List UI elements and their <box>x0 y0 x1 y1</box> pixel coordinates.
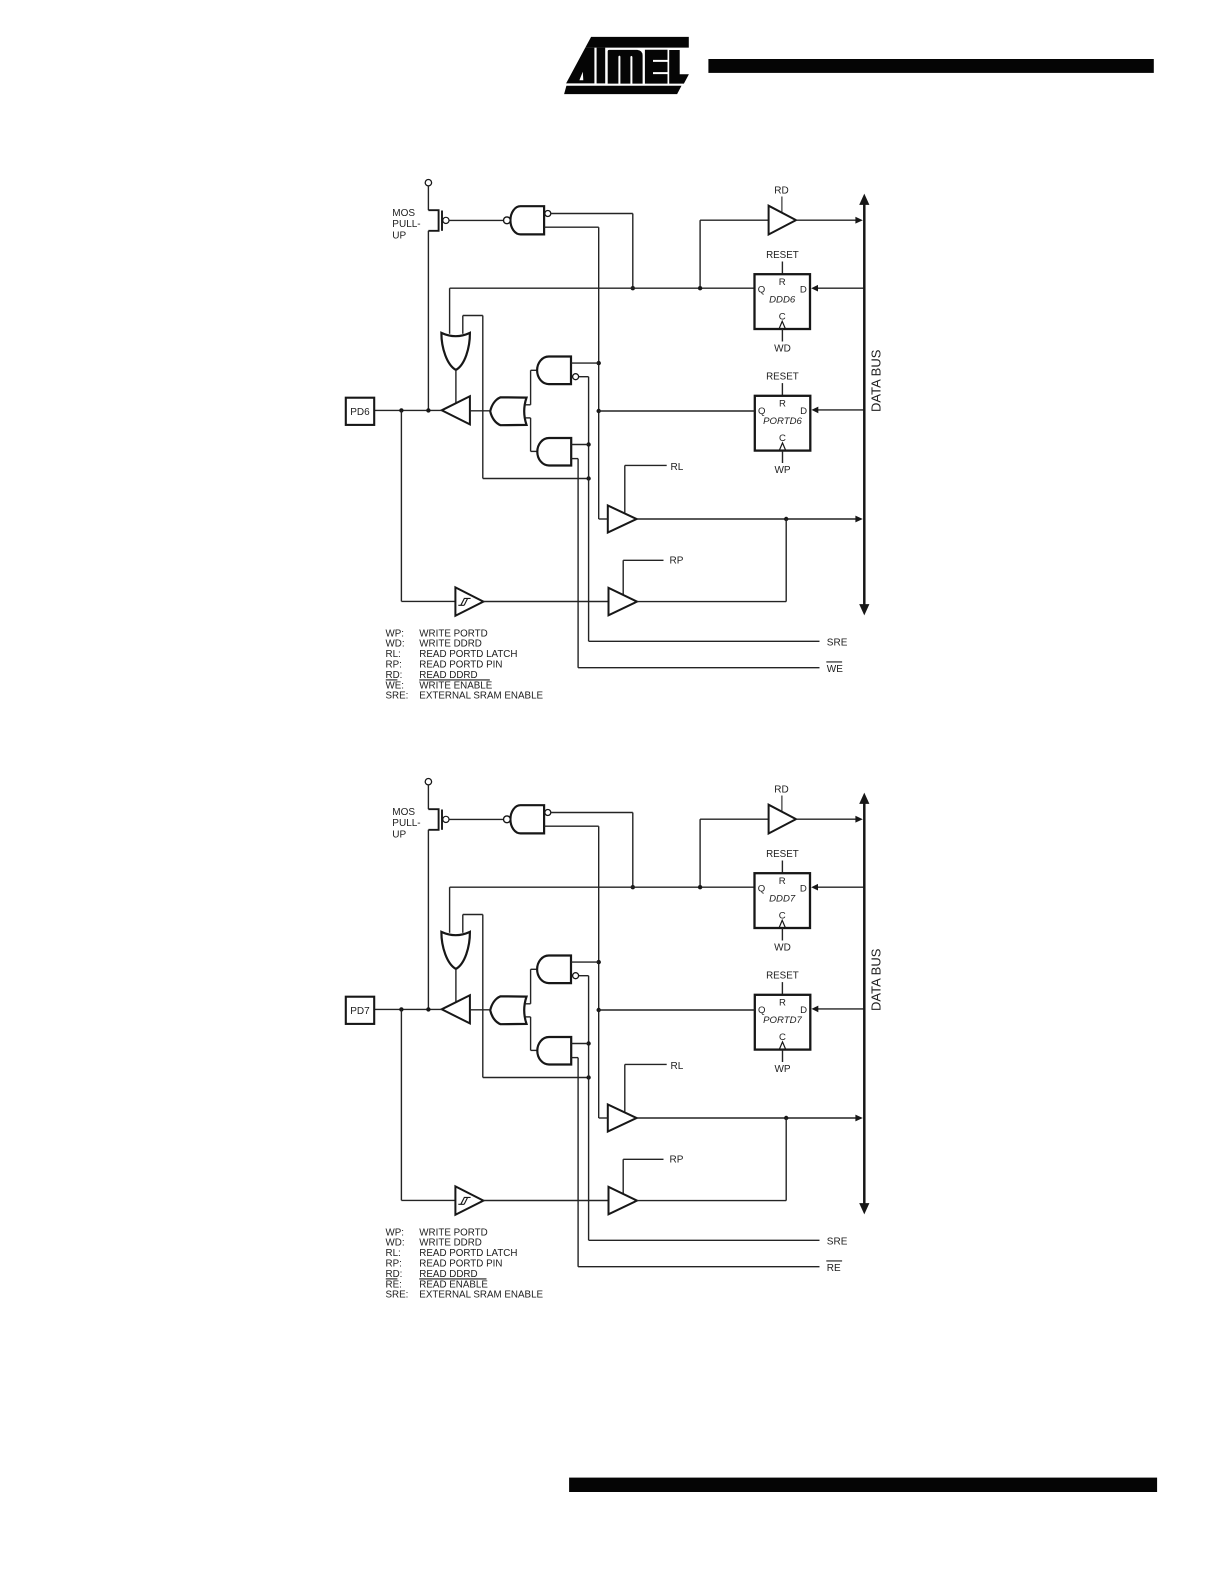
svg-text:UP: UP <box>392 230 406 241</box>
svg-text:R: R <box>779 876 786 887</box>
nand-gate U1 pull-up control (left-facing) <box>510 206 544 234</box>
wire DDR Q line <box>450 287 755 289</box>
wire DDR Q line <box>450 886 755 888</box>
wire WP clock stub <box>782 451 784 463</box>
svg-text:READ DDRD: READ DDRD <box>419 1269 477 1280</box>
wire MOS drain down to pin line <box>427 830 429 1010</box>
junction RL/RP outputs <box>784 517 788 521</box>
overline for active-low WE: row <box>386 679 398 681</box>
svg-text:RP: RP <box>670 1155 684 1166</box>
svg-text:DATA BUS: DATA BUS <box>868 948 883 1011</box>
wire U3 upper input stub <box>525 1003 530 1005</box>
svg-text:RESET: RESET <box>766 849 799 860</box>
wire MOS gate to pull-up NAND output <box>449 219 504 221</box>
wire RL buffer output to data bus <box>637 518 861 520</box>
wire SRE line <box>589 1239 820 1241</box>
svg-text:PORTD6: PORTD6 <box>763 416 802 427</box>
junction RD tap <box>698 885 702 889</box>
wire U3 upper input stub <box>525 404 530 406</box>
nand-gate U1 inverted input bubble <box>545 211 551 217</box>
buffer RP (read pin) <box>609 1187 638 1214</box>
wire U1 lower input to PORT Q net <box>544 226 599 228</box>
wire U1 lower input to PORT Q net <box>544 825 599 827</box>
overline for active-low RE: row <box>386 1278 398 1280</box>
svg-text:WD:: WD: <box>386 1238 405 1249</box>
svg-text:PD6: PD6 <box>350 407 370 418</box>
wire OR output to tristate enable <box>455 370 457 403</box>
svg-text:READ DDRD: READ DDRD <box>419 670 477 681</box>
svg-text:WD: WD <box>774 344 791 355</box>
and-gate U5 (left-facing) <box>531 1049 538 1051</box>
svg-text:Q: Q <box>758 883 765 894</box>
wire SRE net to enable OR input <box>462 316 464 334</box>
svg-text:UP: UP <box>392 829 406 840</box>
transistor MOS pull-up body <box>428 210 438 231</box>
wire RP label line <box>623 1158 663 1160</box>
svg-text:RESET: RESET <box>766 971 799 982</box>
junction SRE / U5 input <box>586 442 590 446</box>
svg-text:WRITE DDRD: WRITE DDRD <box>419 1238 482 1249</box>
svg-text:Q: Q <box>758 284 765 295</box>
wire pin to schmitt trigger <box>400 1009 402 1200</box>
junction RD tap <box>698 286 702 290</box>
logo letter A <box>566 48 594 84</box>
wire RL buffer output to data bus <box>637 1117 861 1119</box>
svg-text:RP:: RP: <box>386 660 402 671</box>
junction pin/pull-up tap <box>426 1007 430 1011</box>
svg-text:WRITE ENABLE: WRITE ENABLE <box>419 680 492 691</box>
transistor MOS pull-up gate bubble <box>443 816 449 822</box>
svg-text:DATA BUS: DATA BUS <box>868 349 883 412</box>
wire RESET stub <box>781 982 783 995</box>
wire RP buffer output joining RL line <box>637 601 786 603</box>
transistor MOS pull-up gate bubble <box>443 217 449 223</box>
wire RP buffer output joining RL line <box>637 1200 786 1202</box>
svg-text:RP: RP <box>670 556 684 567</box>
wire PORT Q line <box>599 1009 755 1011</box>
wire SRE line <box>589 640 820 642</box>
or-gate U3 driver data (pointing left) <box>490 996 526 1024</box>
svg-text:WE:: WE: <box>386 680 405 691</box>
arrowhead RD output into bus <box>855 816 862 823</box>
svg-text:EXTERNAL SRAM ENABLE: EXTERNAL SRAM ENABLE <box>419 691 543 702</box>
svg-text:READ PORTD LATCH: READ PORTD LATCH <box>419 649 517 660</box>
wire WE line <box>578 667 819 669</box>
junction SRE / U5 input <box>586 1041 590 1045</box>
wire pin line PD6 <box>374 409 442 411</box>
svg-text:MOS: MOS <box>392 807 415 818</box>
junction pin/schmitt tap <box>399 408 403 412</box>
flip-flop PORTD6 clock edge marker <box>779 443 786 451</box>
wire VCC terminal to MOS pull-up source <box>427 186 429 210</box>
junction SRE net <box>586 1075 590 1079</box>
wire D input from data bus <box>815 287 864 289</box>
arrowhead bus top <box>859 194 869 205</box>
svg-text:WE: WE <box>827 664 843 675</box>
wire U3 lower input stub <box>525 1016 530 1018</box>
or-gate U3 driver data (pointing left) <box>490 397 526 425</box>
wire U5 lower input from WE net <box>571 458 578 460</box>
junction SRE net <box>586 476 590 480</box>
wire SRE net to enable OR input <box>462 915 464 933</box>
svg-text:D: D <box>800 284 807 295</box>
wire RESET stub <box>781 383 783 396</box>
wire RL buffer input from PORT Q net <box>599 1117 608 1119</box>
schmitt-trigger buffer <box>455 587 483 615</box>
svg-text:WRITE DDRD: WRITE DDRD <box>419 639 482 650</box>
nand-gate U1 pull-up control (left-facing) <box>510 805 544 833</box>
pin box PD6 <box>346 398 374 425</box>
svg-text:READ ENABLE: READ ENABLE <box>419 1279 488 1290</box>
wire schmitt output to RP buffer <box>483 601 608 603</box>
arrowhead bus bottom <box>859 1203 869 1214</box>
svg-text:RL:: RL: <box>386 1248 401 1259</box>
flip-flop DDD7 clock edge marker <box>779 920 786 928</box>
flip-flop PORTD7 clock edge marker <box>779 1042 786 1050</box>
nand-gate U4 (left-facing, inverted lower input) <box>531 968 538 970</box>
svg-text:RL: RL <box>671 1061 684 1072</box>
or-gate U2 tristate enable (pointing down) <box>441 333 470 370</box>
wire RD label to buffer enable <box>781 197 783 213</box>
wire U4 upper input from PORT Q net <box>571 961 599 963</box>
flip-flop DDD6 clock edge marker <box>779 321 786 329</box>
wire RD buffer output to data bus <box>796 219 861 221</box>
junction PORT Q net / Q line <box>597 409 601 413</box>
junction PORT Q net / Q line <box>597 1008 601 1012</box>
arrowhead bus bottom <box>859 604 869 615</box>
wire RESET stub <box>781 262 783 275</box>
flip-flop PORTD7 box <box>755 995 811 1050</box>
wire RP label line <box>623 559 663 561</box>
svg-text:RD: RD <box>774 784 788 795</box>
svg-text:SRE:: SRE: <box>386 691 409 702</box>
schmitt hysteresis symbol <box>458 1197 470 1204</box>
svg-text:SRE: SRE <box>827 1237 848 1248</box>
buffer RP (read pin) <box>609 588 638 615</box>
logo letter E <box>645 50 668 84</box>
junction on DDR Q line <box>631 885 635 889</box>
svg-text:DDD6: DDD6 <box>769 294 796 305</box>
arrowhead into D <box>812 407 819 414</box>
arrowhead into D <box>811 285 818 292</box>
bus DATA BUS vertical line <box>863 202 866 607</box>
wire PORT Q line <box>599 410 755 412</box>
junction PORT Q net / gate input <box>597 960 601 964</box>
wire RD buffer input <box>699 220 701 288</box>
Atmel logo <box>564 37 689 94</box>
wire schmitt output to RP buffer <box>483 1200 608 1202</box>
nand-gate U1 output bubble <box>504 217 511 224</box>
wire U1 inverted input to DDR Q net <box>551 812 633 814</box>
wire pin line PD7 <box>374 1008 442 1010</box>
svg-text:R: R <box>779 399 786 410</box>
bus DATA BUS vertical line <box>863 801 866 1206</box>
buffer RD (read DDR) <box>769 805 796 834</box>
nand-gate U4 input bubble <box>573 374 579 380</box>
wire U3 lower input stub <box>525 417 530 419</box>
svg-text:WD:: WD: <box>386 639 405 650</box>
pin box PD7 <box>346 997 374 1024</box>
svg-text:RD:: RD: <box>386 670 403 681</box>
node VCC terminal (open circle) PD6 section <box>425 180 431 186</box>
svg-text:SRE:: SRE: <box>386 1290 409 1301</box>
wire WP clock stub <box>782 1050 784 1062</box>
svg-text:R: R <box>779 998 786 1009</box>
wire RE line <box>578 1266 819 1268</box>
svg-text:RP:: RP: <box>386 1259 402 1270</box>
wire WD clock stub <box>781 329 783 342</box>
svg-text:WP:: WP: <box>386 628 405 639</box>
flip-flop PORTD6 box <box>755 396 811 451</box>
junction RL/RP outputs <box>784 1116 788 1120</box>
buffer RL (read latch) <box>608 1105 637 1132</box>
flip-flop DDD7 box <box>755 873 811 928</box>
wire U4 inverted input to SRE net <box>579 376 589 378</box>
junction pin/pull-up tap <box>426 408 430 412</box>
arrowhead bus top <box>859 793 869 804</box>
svg-text:PULL-: PULL- <box>392 818 420 829</box>
wire U3 output to tristate input <box>470 1009 490 1011</box>
wire DDR Q to enable OR input <box>449 288 451 334</box>
svg-text:RD: RD <box>774 185 788 196</box>
svg-text:RESET: RESET <box>766 372 799 383</box>
nand-gate U1 output bubble <box>504 816 511 823</box>
junction on DDR Q line <box>631 286 635 290</box>
wire RESET stub <box>781 861 783 874</box>
svg-text:WRITE PORTD: WRITE PORTD <box>419 1227 487 1238</box>
wire OR output to tristate enable <box>455 969 457 1002</box>
svg-text:DDD7: DDD7 <box>769 893 796 904</box>
footer rule bar <box>569 1478 1157 1492</box>
wire U5 upper input from SRE net <box>571 444 588 446</box>
wire RL label line <box>625 464 667 466</box>
buffer tristate output driver PD7 (pointing left) <box>442 995 470 1023</box>
wire D input from data bus <box>815 886 864 888</box>
wire RL label line <box>625 1063 667 1065</box>
svg-text:R: R <box>779 277 786 288</box>
wire pin to schmitt trigger <box>400 410 402 601</box>
arrowhead RL output into bus <box>855 1115 862 1122</box>
schmitt hysteresis symbol <box>458 598 470 605</box>
transistor MOS pull-up gate plate <box>441 211 443 231</box>
svg-text:WP: WP <box>774 465 790 476</box>
wire WD clock stub <box>781 928 783 941</box>
svg-text:D: D <box>800 883 807 894</box>
arrowhead RD output into bus <box>855 217 862 224</box>
logo letter L <box>669 50 689 84</box>
arrowhead into D <box>812 1006 819 1013</box>
svg-text:READ PORTD PIN: READ PORTD PIN <box>419 660 502 671</box>
logo letter m <box>608 50 643 84</box>
svg-text:WP: WP <box>774 1064 790 1075</box>
wire U5 upper input from SRE net <box>571 1043 588 1045</box>
header rule bar <box>708 59 1153 73</box>
buffer tristate output driver PD6 (pointing left) <box>442 396 470 424</box>
wire U1 inverted input to DDR Q net <box>551 213 633 215</box>
transistor MOS pull-up body <box>428 809 438 830</box>
svg-text:PULL-: PULL- <box>392 219 420 230</box>
svg-text:WP:: WP: <box>386 1227 405 1238</box>
svg-text:RE: RE <box>827 1263 841 1274</box>
wire RD label to buffer enable <box>781 796 783 812</box>
wire DDR Q to enable OR input <box>449 887 451 933</box>
wire U4 inverted input to SRE net <box>579 975 589 977</box>
nand-gate U4 input bubble <box>573 973 579 979</box>
wire U4 upper input from PORT Q net <box>571 362 599 364</box>
svg-text:RL: RL <box>671 462 684 473</box>
arrowhead RL output into bus <box>855 516 862 523</box>
flip-flop DDD6 box <box>755 274 811 329</box>
node VCC terminal (open circle) PD7 section <box>425 779 431 785</box>
svg-text:RL:: RL: <box>386 649 401 660</box>
wire MOS drain down to pin line <box>427 231 429 411</box>
or-gate U2 tristate enable (pointing down) <box>441 932 470 969</box>
logo bottom bar <box>564 86 681 94</box>
junction pin/schmitt tap <box>399 1007 403 1011</box>
transistor MOS pull-up gate plate <box>441 810 443 830</box>
wire U3 output to tristate input <box>470 410 490 412</box>
svg-text:RE:: RE: <box>386 1279 402 1290</box>
and-gate U5 (left-facing) <box>531 450 538 452</box>
nand-gate U1 inverted input bubble <box>545 810 551 816</box>
nand-gate U4 (left-facing, inverted lower input) <box>531 369 538 371</box>
wire D input from data bus <box>815 1008 863 1010</box>
junction PORT Q net / gate input <box>597 361 601 365</box>
logo top bar <box>585 37 689 48</box>
wire RL buffer input from PORT Q net <box>599 518 608 520</box>
wire RD buffer output to data bus <box>796 818 861 820</box>
svg-text:READ PORTD LATCH: READ PORTD LATCH <box>419 1248 517 1259</box>
buffer RD (read DDR) <box>769 206 796 235</box>
wire MOS gate to pull-up NAND output <box>449 818 504 820</box>
svg-text:RD:: RD: <box>386 1269 403 1280</box>
svg-text:READ PORTD PIN: READ PORTD PIN <box>419 1259 502 1270</box>
schmitt-trigger buffer <box>455 1186 483 1214</box>
wire VCC terminal to MOS pull-up source <box>427 785 429 809</box>
logo letter T stem <box>597 48 606 84</box>
wire U5 lower input from RE net <box>571 1057 578 1059</box>
svg-text:EXTERNAL SRAM ENABLE: EXTERNAL SRAM ENABLE <box>419 1290 543 1301</box>
wire RD buffer input <box>699 819 701 887</box>
svg-text:SRE: SRE <box>827 638 848 649</box>
svg-text:RESET: RESET <box>766 250 799 261</box>
wire D input from data bus <box>815 409 863 411</box>
svg-text:MOS: MOS <box>392 208 415 219</box>
svg-text:PORTD7: PORTD7 <box>763 1015 802 1026</box>
arrowhead into D <box>811 884 818 891</box>
svg-text:WD: WD <box>774 943 791 954</box>
buffer RL (read latch) <box>608 506 637 533</box>
svg-text:WRITE PORTD: WRITE PORTD <box>419 628 487 639</box>
svg-text:PD7: PD7 <box>350 1006 370 1017</box>
